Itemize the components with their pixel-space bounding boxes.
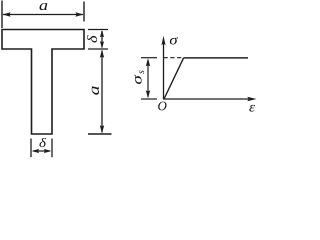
dimension line a (vertical right): [101, 51, 103, 133]
dimension double arrow (flange delta): [101, 31, 103, 48]
sigma_s dimension double arrow: [147, 60, 149, 97]
extension line right (top a dimension): [83, 2, 85, 22]
arrowhead down (vertical a): [100, 125, 104, 133]
extension line right (bottom delta): [51, 139, 53, 158]
stem bottom extension line (right): [88, 133, 112, 135]
sigma_s top tick: [141, 57, 157, 59]
label a (top): [40, 3, 48, 10]
dashed line at sigma_s level: [164, 57, 184, 59]
label sigma_s rotated: [134, 75, 141, 84]
label sigma: [170, 37, 178, 44]
arrowhead right (top a): [75, 12, 83, 16]
dimension double arrow (bottom delta): [33, 150, 50, 152]
extension line top (flange thickness delta): [88, 29, 108, 31]
label delta (flange) rotated: [87, 35, 97, 42]
epsilon axis (horizontal): [164, 98, 253, 100]
label a (vertical) rotated: [92, 86, 99, 94]
T-section outline: [2, 30, 84, 135]
plastic plateau line: [184, 57, 248, 59]
arrowhead left (top a): [2, 12, 10, 16]
label O: [158, 102, 166, 111]
label s subscript rotated: [139, 70, 144, 73]
label epsilon: [249, 105, 255, 112]
extension line left (bottom delta): [30, 139, 32, 158]
dimension line a (top): [3, 14, 83, 16]
label delta (bottom): [39, 138, 46, 147]
extension line bottom (flange thickness delta): [88, 48, 108, 50]
elastic line: [164, 58, 184, 99]
extension line left (top a dimension): [1, 1, 3, 29]
arrowhead up (vertical a): [100, 50, 104, 58]
sigma axis (vertical): [163, 42, 165, 100]
sigma_s bottom tick: [141, 98, 157, 100]
